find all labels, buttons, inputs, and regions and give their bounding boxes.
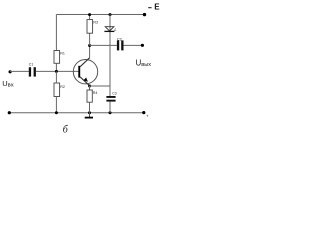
wire top supply rail [57, 14, 145, 16]
wire emitter to C4 branch [90, 85, 110, 87]
transistor VT1 emitter arrow [84, 78, 88, 82]
node R3 top rail junction [88, 13, 91, 16]
diode VD1 [104, 27, 114, 32]
transistor VT1 base bar [78, 66, 80, 78]
wire R3 to top rail [89, 14, 91, 20]
resistor R4 [87, 90, 92, 102]
svg-text:R2: R2 [60, 85, 65, 89]
node base divider junction [55, 70, 58, 73]
capacitor C4 [106, 96, 115, 102]
svg-text:R1: R1 [60, 51, 65, 55]
transistor VT1 circle [73, 59, 97, 83]
node diode top rail junction [109, 13, 112, 16]
svg-text:C1: C1 [29, 63, 34, 67]
wire C4 to bottom rail [109, 102, 111, 113]
node emitter junction [88, 85, 91, 88]
wire rail through diode down across output line to emitter line [109, 14, 111, 96]
svg-text:Д: Д [114, 28, 116, 32]
wire input to C1 [10, 70, 29, 72]
resistor R2 [54, 83, 60, 97]
svg-text:R3: R3 [93, 21, 98, 25]
resistor R3 [87, 20, 93, 34]
wire R1 to base node [55, 63, 57, 71]
wire base node to R2 [55, 71, 57, 83]
node bottom right terminal [142, 111, 145, 114]
node supply terminal [143, 13, 146, 16]
node ground junction [88, 111, 91, 114]
resistor R1 [54, 51, 60, 64]
node R2 bottom junction [55, 111, 58, 114]
wire R2 to bottom rail [55, 97, 57, 113]
wire bottom rail [9, 112, 144, 114]
svg-text:R4: R4 [93, 91, 98, 95]
node bottom left terminal [8, 111, 11, 114]
transistor VT1 emitter lead [80, 77, 90, 86]
svg-text:C2: C2 [117, 36, 123, 41]
ground [85, 113, 93, 119]
wire collector node to R3 [89, 33, 91, 45]
svg-text:+: + [146, 114, 149, 119]
node collector output junction [88, 44, 91, 47]
wire C3 to output terminal [124, 44, 143, 46]
node output terminal [141, 44, 144, 47]
wire collector node to C3 [90, 44, 117, 46]
wire left drop from rail to R1 [55, 14, 57, 50]
svg-text:E: E [154, 2, 160, 11]
node input terminal [9, 70, 12, 73]
node C4 bottom junction [109, 111, 112, 114]
capacitor C3 output [117, 40, 124, 50]
capacitor C1 [29, 67, 36, 76]
svg-text:C3: C3 [112, 91, 116, 95]
wire C1 to base junction [36, 70, 79, 72]
wire emitter node to R4 [89, 86, 91, 90]
wire collector up [89, 45, 91, 58]
label minus E supply [148, 2, 160, 11]
wire R4 to bottom rail [89, 102, 91, 113]
transistor VT1 collector lead [80, 58, 90, 67]
